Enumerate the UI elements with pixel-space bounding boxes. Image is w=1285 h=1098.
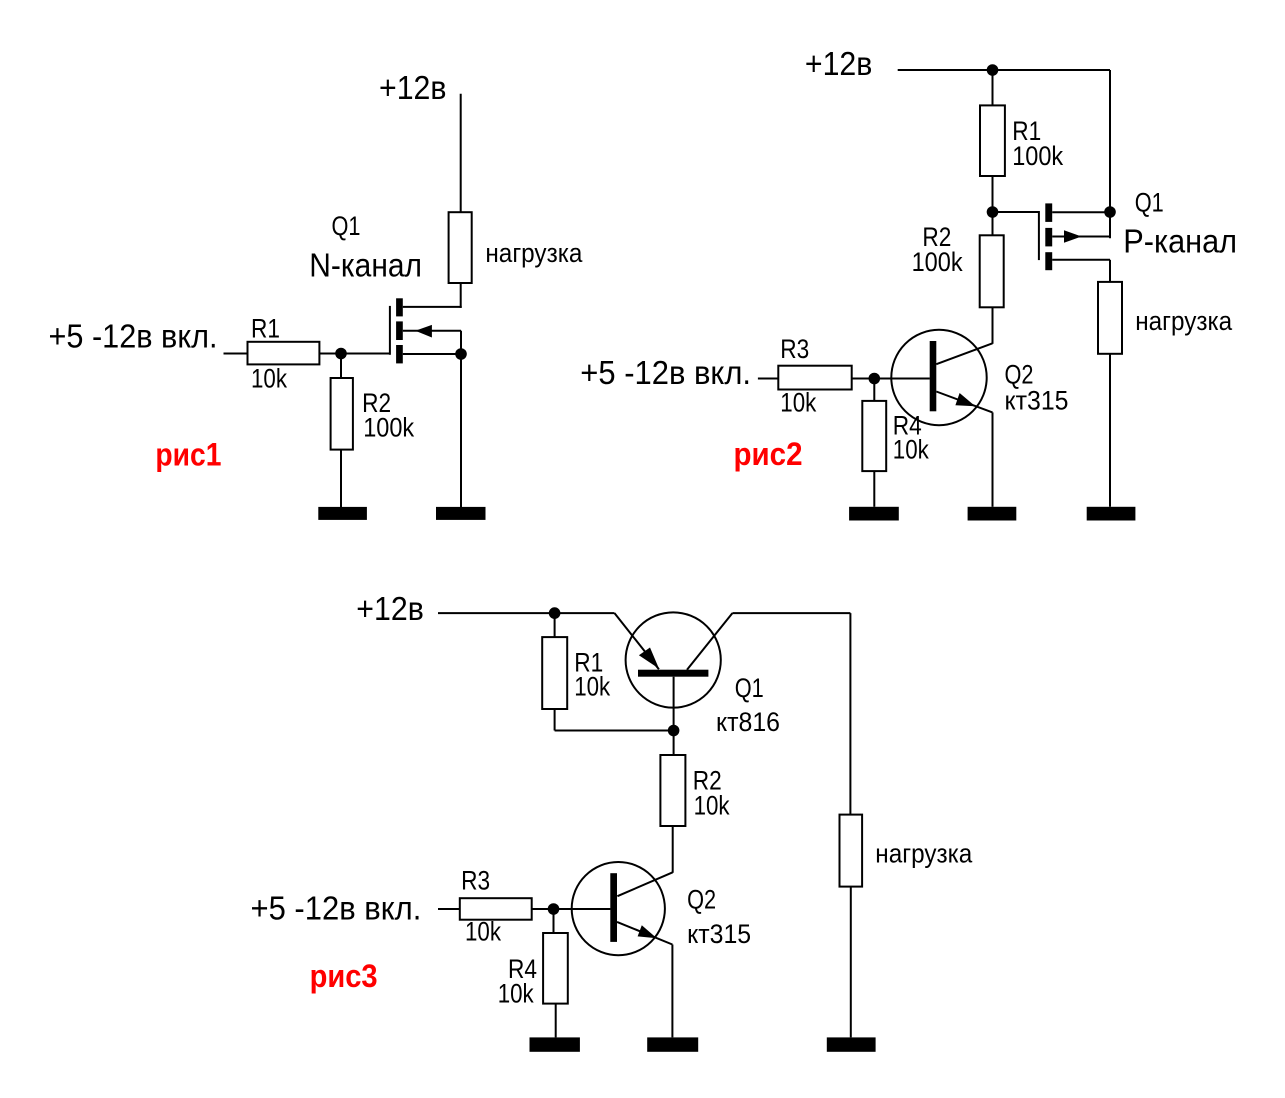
svg-text:10k: 10k [251, 363, 288, 393]
wire junction to R2 (fig3) [673, 731, 675, 756]
svg-text:+5 -12в вкл.: +5 -12в вкл. [580, 354, 751, 391]
svg-text:+12в: +12в [356, 590, 424, 627]
wire load to ground (fig2) [1109, 354, 1111, 507]
ground R2 (fig1) [318, 507, 367, 520]
transistor Q2 circle (fig3) [572, 862, 665, 955]
resistor R1 fig1 [248, 342, 320, 365]
junction R3/R4/base (fig2) [869, 373, 881, 385]
ground source (fig1) [436, 507, 486, 520]
svg-text:Q1: Q1 [332, 211, 361, 241]
wire R4 to ground (fig3) [555, 1004, 557, 1038]
resistor R2 fig1 [331, 378, 353, 450]
svg-text:100k: 100k [363, 413, 415, 443]
junction rail/R1 (fig3) [549, 607, 561, 619]
svg-text:Q1: Q1 [735, 673, 764, 703]
transistor Q2 emitter lead (fig2) [936, 392, 992, 413]
mosfet Q1 source lead (fig2) [1052, 211, 1110, 213]
mosfet Q1 channel bar middle (fig1) [396, 321, 403, 340]
wire bulk to source (fig1) [460, 331, 462, 354]
wire down to load (fig3) [849, 613, 851, 815]
wire junction to R2 (fig1) [340, 354, 342, 379]
ground load (fig2) [1087, 507, 1136, 521]
wire junction to gate (fig2) [993, 211, 1039, 213]
mosfet Q1 channel bar top (fig2) [1045, 203, 1052, 222]
junction R1/R2 (fig1) [335, 348, 347, 360]
wire collector to load (fig3) [732, 612, 850, 614]
transistor Q1 emitter lead (fig3) [615, 613, 659, 669]
transistor Q2 emitter arrow (fig3) [638, 925, 657, 938]
svg-text:рис2: рис2 [734, 436, 803, 472]
wire input to R3 (fig3) [438, 908, 460, 910]
junction rail/R1 (fig2) [987, 64, 999, 76]
transistor Q2 collector lead (fig2) [936, 343, 992, 364]
wire Q1 base down (fig3) [673, 677, 675, 731]
junction R1/R2/gate (fig2) [987, 206, 999, 218]
svg-text:нагрузка: нагрузка [875, 838, 972, 868]
svg-text:Q2: Q2 [687, 885, 716, 915]
wire R1 down (fig3) [554, 709, 556, 731]
junction source node (fig1) [455, 348, 467, 360]
mosfet Q1 gate line (fig2) [1038, 211, 1040, 260]
wire load to ground (fig3) [850, 887, 852, 1038]
wire R1 to R2 (fig2) [992, 176, 994, 235]
resistor R2 fig2 [980, 235, 1004, 307]
wire input to R1 (fig1) [224, 353, 248, 355]
wire +12v rail (fig2) [898, 69, 1110, 71]
transistor Q1 collector lead (fig3) [687, 613, 732, 670]
wire +12v down to load (fig1) [460, 94, 462, 212]
wire emitter to ground (fig2) [992, 412, 994, 506]
wire R3 to base (fig3) [532, 908, 611, 910]
wire rail down to source (fig2) [1109, 70, 1111, 238]
wire rail to R1 (fig3) [554, 613, 556, 637]
transistor Q2 collector lead (fig3) [617, 872, 672, 896]
mosfet Q1 channel bar bottom (fig1) [396, 345, 403, 363]
resistor R2 fig3 [660, 755, 685, 826]
resistor load (нагрузка) fig2 [1098, 282, 1122, 354]
transistor Q2 emitter lead (fig3) [617, 922, 672, 945]
svg-text:R1: R1 [251, 314, 280, 344]
wire base (fig3) [554, 908, 611, 910]
transistor Q2 base bar (fig3) [610, 873, 617, 942]
svg-text:кт315: кт315 [687, 919, 751, 949]
svg-text:10k: 10k [465, 917, 502, 947]
wire R4 to ground (fig2) [873, 471, 875, 507]
svg-text:10k: 10k [498, 978, 535, 1008]
wire rail to R1 (fig2) [992, 70, 994, 105]
wire R2 to collector Q2 (fig2) [992, 307, 994, 344]
transistor Q1 base bar (fig3) [638, 670, 708, 677]
resistor load (нагрузка) fig1 [449, 212, 472, 283]
ground emitter Q2 (fig3) [647, 1037, 698, 1051]
mosfet Q1 gate line (fig1) [389, 306, 391, 355]
svg-text:10k: 10k [574, 672, 611, 702]
mosfet Q1 bulk arrow (fig2) [1064, 230, 1082, 243]
svg-text:10k: 10k [893, 435, 930, 465]
wire source to ground (fig1) [460, 354, 462, 507]
ground load (fig3) [827, 1037, 876, 1051]
transistor Q2 base bar (fig2) [930, 341, 937, 411]
wire load to drain (fig1) [460, 283, 462, 308]
mosfet Q1 drain lead (fig2) [1052, 259, 1110, 261]
mosfet Q1 channel bar top (fig1) [396, 298, 403, 316]
mosfet Q1 drain lead (fig1) [403, 306, 462, 308]
svg-text:рис3: рис3 [310, 958, 378, 994]
svg-text:Q1: Q1 [1135, 188, 1164, 218]
svg-text:+5 -12в вкл.: +5 -12в вкл. [49, 317, 218, 354]
svg-text:100k: 100k [912, 247, 964, 277]
ground R4 (fig2) [849, 507, 899, 521]
wire junction to R4 (fig2) [873, 379, 875, 401]
transistor Q2 circle (fig2) [891, 330, 986, 425]
wire R1 to base junction (fig3) [555, 730, 674, 732]
svg-text:10k: 10k [780, 387, 817, 417]
wire input to R3 (fig2) [758, 378, 778, 380]
wire emitter to ground (fig3) [671, 945, 673, 1038]
svg-text:+12в: +12в [379, 69, 447, 106]
svg-text:R3: R3 [461, 865, 490, 895]
wire base (fig2) [874, 378, 929, 380]
resistor R1 fig3 [542, 637, 567, 709]
mosfet Q1 channel bar middle (fig2) [1045, 228, 1052, 247]
mosfet Q1 bulk lead (fig1) [403, 330, 461, 332]
wire R2 to collector Q2 (fig3) [672, 826, 674, 873]
svg-text:10k: 10k [694, 790, 731, 820]
wire junction to R4 (fig3) [553, 909, 555, 933]
svg-text:100k: 100k [1012, 141, 1064, 171]
svg-text:P-канал: P-канал [1123, 222, 1237, 259]
svg-text:R3: R3 [780, 334, 809, 364]
resistor R4 fig2 [862, 401, 886, 471]
resistor R4 fig3 [543, 933, 568, 1004]
svg-text:кт816: кт816 [716, 707, 780, 737]
wire drain to load (fig2) [1109, 260, 1111, 282]
ground emitter Q2 (fig2) [968, 507, 1017, 521]
svg-text:+5 -12в вкл.: +5 -12в вкл. [251, 890, 422, 927]
ground R4 (fig3) [530, 1037, 580, 1051]
junction base/R1/R2 (fig3) [668, 725, 680, 737]
transistor Q1 emitter arrow (fig3) [639, 648, 659, 669]
svg-text:нагрузка: нагрузка [485, 238, 582, 268]
wire R2 to ground (fig1) [340, 450, 342, 507]
mosfet Q1 bulk lead (fig2) [1052, 236, 1110, 238]
transistor Q1 circle (fig3) [626, 612, 721, 707]
junction R3/R4/base (fig3) [548, 903, 560, 915]
resistor R3 fig3 [460, 898, 532, 920]
mosfet Q1 bulk arrow (fig1) [415, 325, 432, 338]
svg-text:рис1: рис1 [155, 436, 221, 472]
svg-text:кт315: кт315 [1005, 385, 1069, 415]
wire R3 to base (fig2) [852, 378, 930, 380]
svg-text:+12в: +12в [805, 45, 873, 82]
resistor load (нагрузка) fig3 [840, 815, 863, 887]
junction source/bulk (fig2) [1104, 206, 1116, 218]
resistor R1 fig2 [980, 105, 1005, 176]
svg-text:нагрузка: нагрузка [1135, 306, 1232, 336]
wire +12v rail (fig3) [438, 612, 615, 614]
mosfet Q1 channel bar bottom (fig2) [1045, 252, 1052, 270]
wire R1 to gate (fig1) [319, 353, 390, 355]
transistor Q2 emitter arrow (fig2) [955, 393, 975, 406]
resistor R3 fig2 [778, 366, 851, 390]
mosfet Q1 source lead (fig1) [403, 353, 461, 355]
svg-text:N-канал: N-канал [309, 246, 422, 283]
